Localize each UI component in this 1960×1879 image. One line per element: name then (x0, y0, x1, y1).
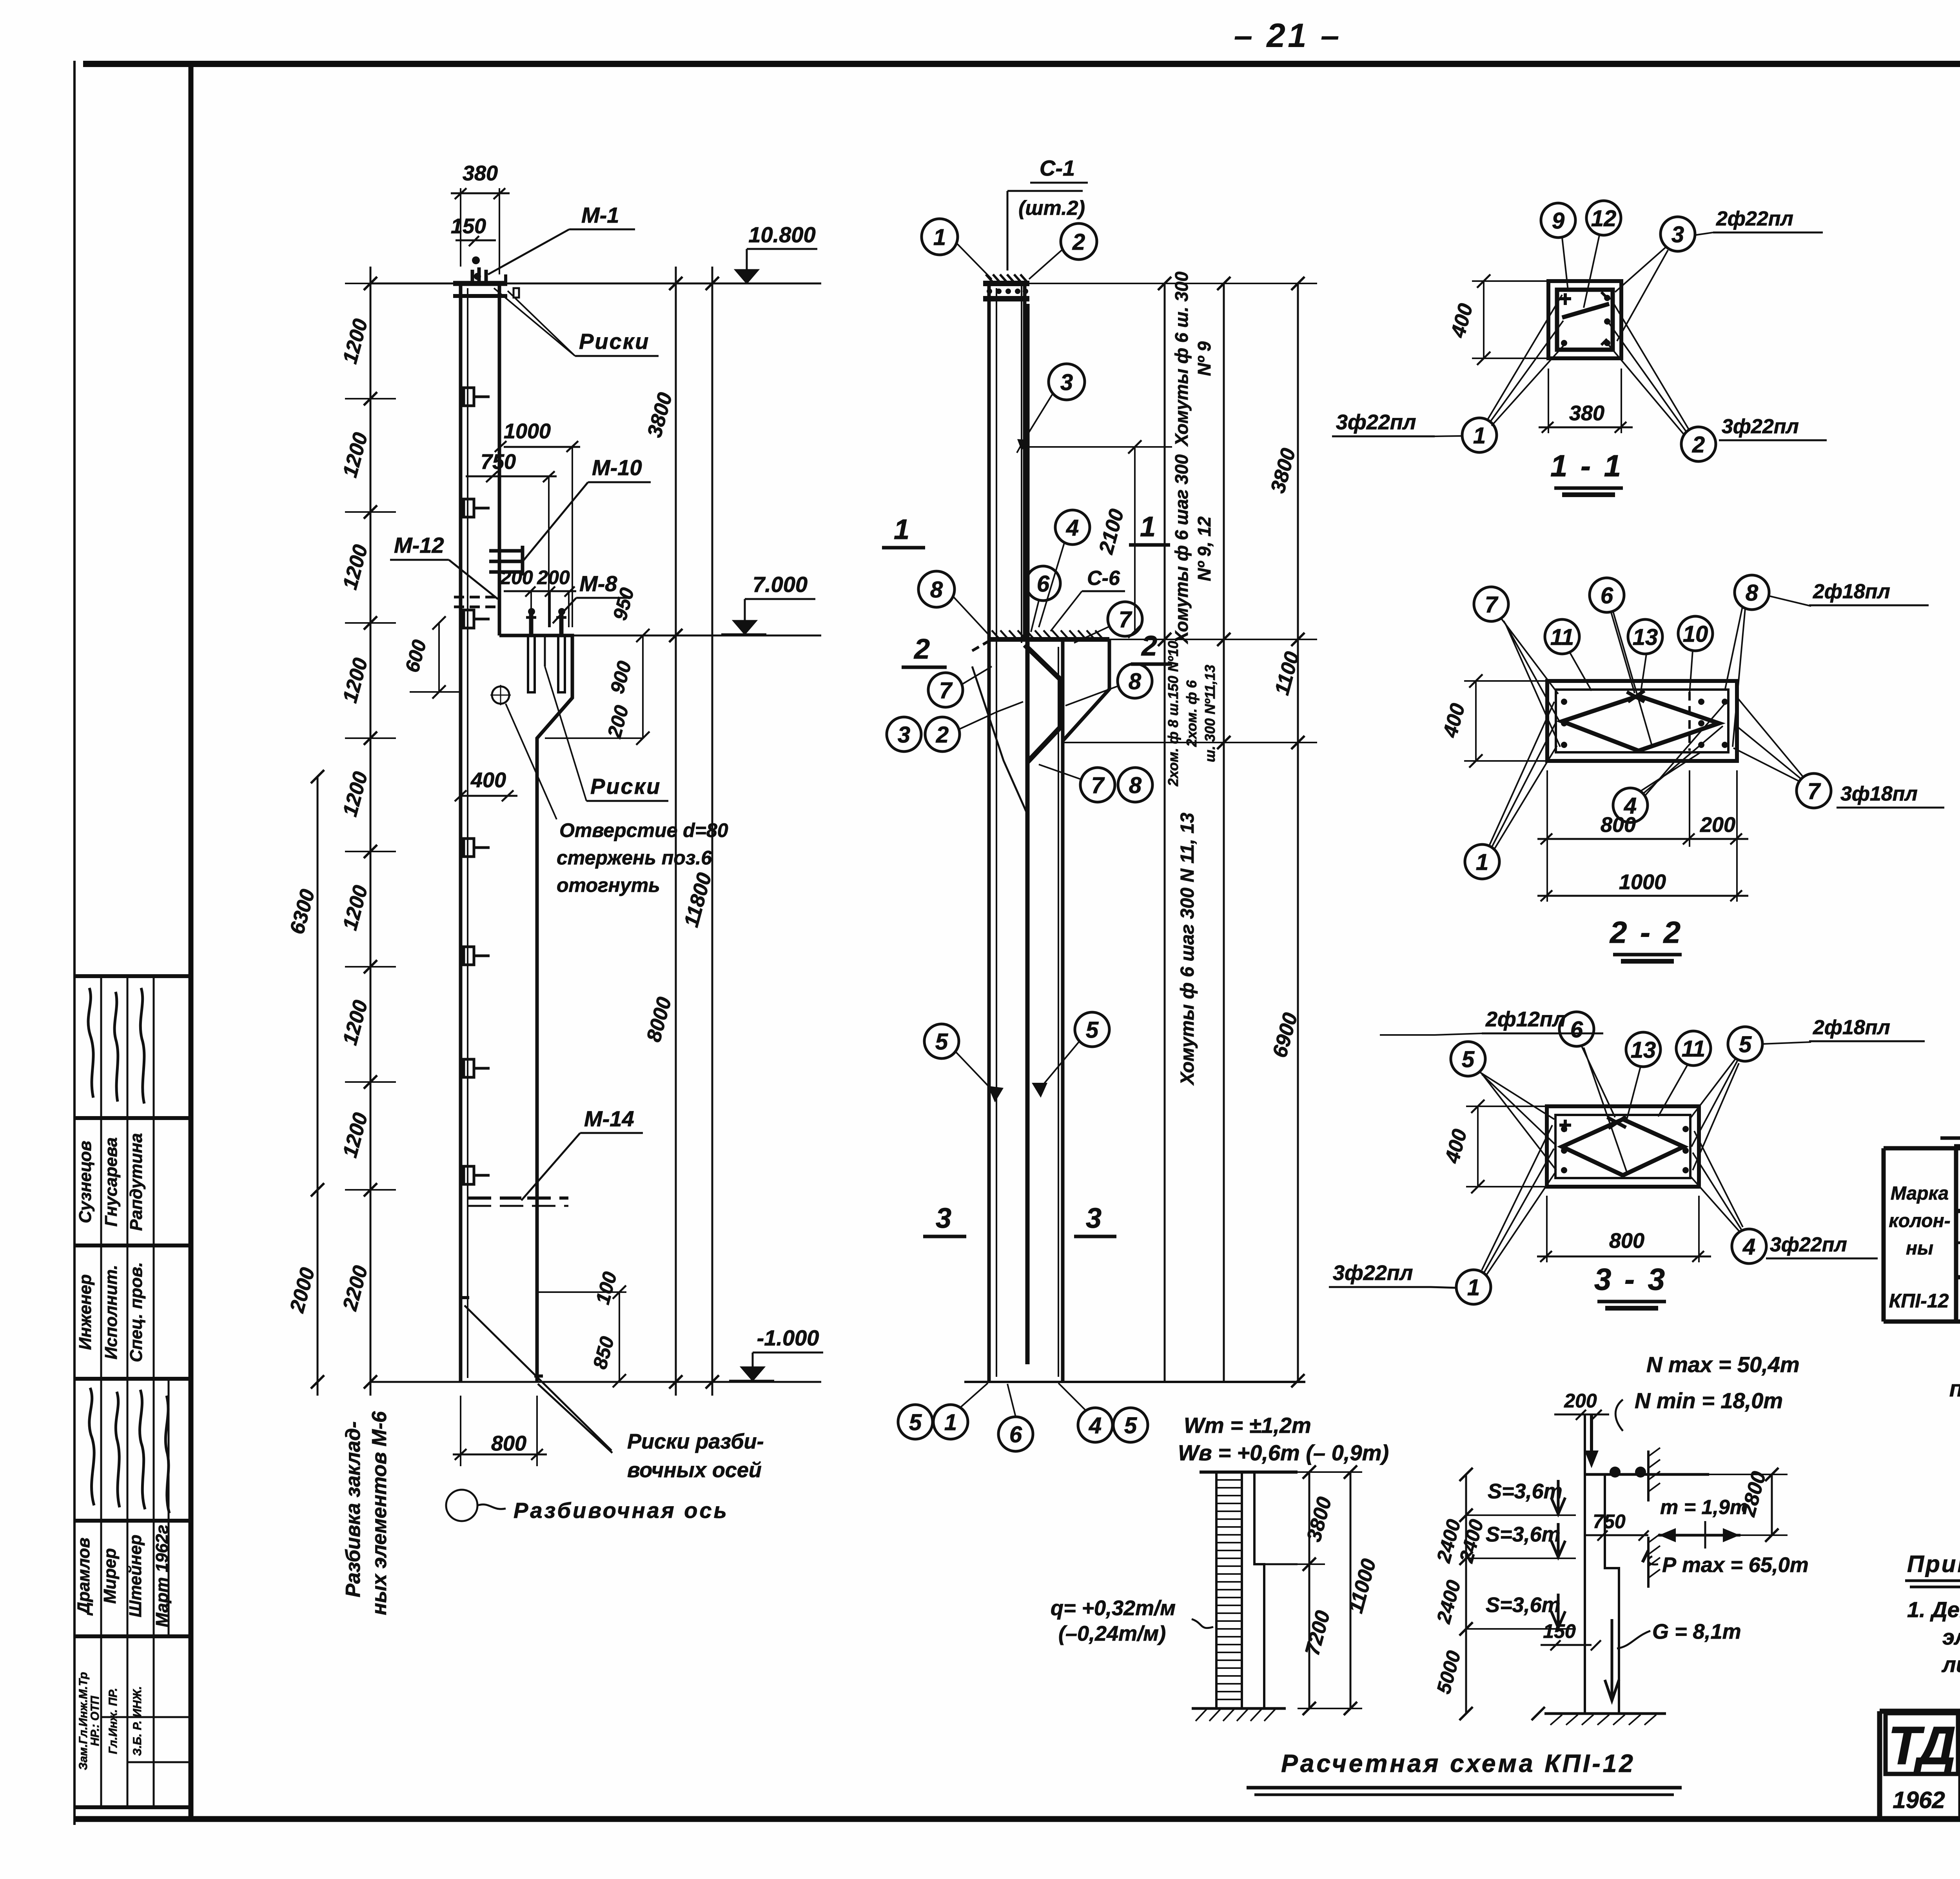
node riski rects on shaft (464, 388, 490, 1184)
svg-text:380: 380 (1569, 401, 1604, 425)
svg-text:3: 3 (898, 722, 910, 748)
node s11 circled 2 (1608, 298, 1716, 461)
svg-text:Р max = 65,0т: Р max = 65,0т (1662, 1553, 1809, 1577)
CENTER COLUMN (882, 156, 1317, 1451)
node riski label top (494, 288, 659, 356)
svg-text:8: 8 (1129, 773, 1142, 798)
node section 2-2 dims 800 200 1000 (1537, 770, 1748, 902)
node s22 circled 8 (1725, 575, 1769, 747)
node wind labels (1178, 1413, 1389, 1465)
node section mark 3 right (1074, 1203, 1116, 1236)
node notes (1905, 1551, 1960, 1677)
node circled 6 (1026, 566, 1060, 632)
node scheme1 dims (1298, 1465, 1381, 1715)
svg-text:7: 7 (939, 678, 953, 703)
svg-text:1. Детали колонн с закладными: 1. Детали колонн с закладными (1907, 1597, 1960, 1622)
svg-text:12: 12 (1591, 206, 1617, 231)
svg-text:1: 1 (944, 1410, 957, 1435)
node dim 150 (451, 214, 496, 246)
node s11 circled 1 (1462, 295, 1564, 452)
svg-text:Риски: Риски (579, 329, 650, 354)
title block frame (1880, 1711, 1960, 1819)
node section 1-1 dim 400 (1446, 274, 1550, 365)
node dim 750 scheme2 (1585, 1510, 1649, 1541)
svg-text:13: 13 (1631, 1037, 1656, 1063)
svg-text:2: 2 (1072, 229, 1085, 255)
STAMPSTRIP (74, 976, 191, 1807)
svg-text:10.800: 10.800 (748, 222, 815, 247)
svg-text:3: 3 (1060, 370, 1073, 395)
node s33 circled 1 (1456, 1125, 1555, 1304)
svg-text:2ф18пл: 2ф18пл (1813, 1016, 1890, 1039)
svg-text:1: 1 (1473, 423, 1486, 448)
svg-text:9: 9 (1552, 208, 1564, 234)
svg-text:6: 6 (1037, 571, 1050, 597)
node rotated zakladka note (342, 1411, 391, 1615)
node dim 200 200 (500, 566, 576, 627)
node dim 6300 line (285, 770, 324, 1396)
svg-text:Штейнер: Штейнер (126, 1535, 145, 1618)
node s33 circled 5 right (1690, 1027, 1762, 1170)
node section 3-3 dim 800 (1537, 1196, 1711, 1262)
svg-text:показатели на одну колонну: показатели на одну колонну (1949, 1376, 1960, 1402)
node TE title (1949, 1346, 1960, 1412)
svg-text:5: 5 (935, 1029, 948, 1055)
node section 3-3 dim 400 (1441, 1100, 1548, 1193)
svg-text:М-14: М-14 (584, 1106, 634, 1131)
svg-text:т = 1,9т: т = 1,9т (1660, 1496, 1748, 1519)
svg-text:ш. 300 Nº11,13: ш. 300 Nº11,13 (1202, 665, 1218, 762)
svg-text:10: 10 (1683, 621, 1708, 647)
svg-text:2: 2 (936, 722, 949, 748)
svg-text:2 - 2: 2 - 2 (1609, 915, 1683, 949)
node section 2-2 box (1547, 681, 1737, 761)
svg-text:2ф18пл: 2ф18пл (1813, 580, 1890, 603)
console outline (499, 635, 572, 1382)
svg-text:3: 3 (936, 1203, 951, 1234)
svg-text:N min = 18,0т: N min = 18,0т (1635, 1388, 1783, 1413)
svg-text:2: 2 (1692, 432, 1705, 457)
node circled 6 bottom (998, 1384, 1033, 1451)
node dim 850 100 (536, 1269, 626, 1387)
wire top border (83, 61, 1960, 67)
svg-text:13: 13 (1633, 625, 1658, 650)
svg-text:Март 1962г: Март 1962г (152, 1525, 172, 1627)
svg-text:Примечания:: Примечания: (1907, 1551, 1960, 1577)
node C-6 label (1051, 567, 1125, 631)
node M-12 label dashed (390, 533, 501, 607)
node s33 circled 13 (1626, 1032, 1661, 1119)
svg-text:Хомуты ф 6 шаг 300 N 11, 13: Хомуты ф 6 шаг 300 N 11, 13 (1177, 813, 1198, 1086)
node s22 circled 7 right (1733, 696, 1831, 808)
node riski axis label (627, 1430, 764, 1482)
node section mark 1 right (1129, 511, 1170, 545)
svg-text:S=3,6т: S=3,6т (1486, 1593, 1561, 1617)
svg-text:Драмлов: Драмлов (74, 1538, 93, 1616)
node dim 1000 (495, 419, 580, 627)
svg-text:Wт = ±1,2т: Wт = ±1,2т (1184, 1413, 1311, 1438)
svg-text:элементами помещены на: элементами помещены на (1942, 1625, 1960, 1649)
svg-text:ных элементов М-6: ных элементов М-6 (368, 1411, 391, 1615)
node s11 label 3f22 left (1332, 410, 1463, 436)
column outline right upper (498, 283, 501, 635)
node razbivochnaya axis (446, 1490, 729, 1523)
svg-text:Гнусарева: Гнусарева (102, 1137, 121, 1227)
svg-text:7.000: 7.000 (753, 572, 808, 597)
node base line center (964, 1381, 1305, 1383)
svg-text:стержень поз.6: стержень поз.6 (557, 847, 712, 869)
node s11 label 3f22 right (1719, 415, 1827, 440)
svg-text:800: 800 (491, 1432, 526, 1455)
svg-text:3: 3 (1086, 1203, 1102, 1234)
svg-text:Марка: Марка (1891, 1183, 1949, 1204)
node stirrup text rotated C (1165, 641, 1218, 787)
node s11 circled 9 (1541, 203, 1575, 290)
node base leaders (453, 1298, 612, 1466)
svg-text:Рапдутина: Рапдутина (127, 1133, 146, 1231)
node s33 label 3f22 right (1766, 1233, 1878, 1258)
node s22 circled 13 (1628, 619, 1662, 694)
node dim 600 (401, 616, 461, 699)
svg-text:4: 4 (1066, 515, 1079, 541)
node M-10 label and anchor (489, 455, 651, 576)
svg-text:Разбивочная ось: Разбивочная ось (514, 1498, 729, 1523)
svg-text:400: 400 (470, 768, 506, 792)
svg-text:7: 7 (1119, 607, 1132, 632)
svg-text:КПI-12: КПI-12 (1889, 1290, 1949, 1312)
svg-text:Расчетная схема КПI-12: Расчетная схема КПI-12 (1281, 1749, 1635, 1777)
node M-14 label (468, 1106, 643, 1206)
svg-text:750: 750 (1593, 1510, 1626, 1532)
node stirrup dim lines right (1029, 277, 1317, 1387)
node Nmax Nmin labels (1615, 1352, 1799, 1431)
node hole note text (506, 704, 728, 896)
node circled 4 (1039, 510, 1090, 627)
node circled 3 (1017, 364, 1085, 453)
svg-text:1: 1 (933, 225, 946, 250)
svg-text:отогнуть: отогнуть (557, 874, 660, 896)
node G force (1605, 1619, 1741, 1701)
node bent bar (1025, 645, 1060, 762)
node elevation mark 10.800 (723, 222, 817, 283)
node s33 label 2f18 (1762, 1016, 1925, 1044)
SECTIONS (1329, 201, 1944, 1308)
svg-text:Гл.Инж. ПР.: Гл.Инж. ПР. (107, 1688, 120, 1754)
node TD logo (1886, 1713, 1958, 1813)
node circled 7 8 pair low (1039, 764, 1152, 802)
svg-text:6: 6 (1601, 583, 1613, 608)
svg-text:200: 200 (500, 566, 533, 588)
node T force (1658, 1496, 1748, 1549)
node circled 3 2 pair (887, 702, 1023, 752)
svg-text:11: 11 (1682, 1036, 1705, 1062)
node s11 label 2f22 (1694, 207, 1823, 235)
node circled 5 mid left (924, 1024, 1004, 1102)
svg-text:М-8: М-8 (579, 571, 617, 596)
node s33 circled 6 (1559, 1012, 1627, 1172)
svg-text:1: 1 (1140, 511, 1156, 543)
svg-text:800: 800 (1609, 1229, 1644, 1253)
node scheme1 title (1247, 1749, 1682, 1795)
node level line base (370, 1381, 821, 1383)
node section mark 2 left (902, 634, 947, 667)
node s22 label 3f18 (1837, 782, 1944, 808)
svg-text:(шт.2): (шт.2) (1018, 197, 1085, 220)
node s22 circled 4 (1613, 704, 1725, 822)
svg-text:3ф18пл: 3ф18пл (1840, 782, 1918, 805)
svg-text:Инженер: Инженер (76, 1274, 95, 1350)
svg-text:колон-: колон- (1889, 1211, 1950, 1231)
SMALLTABLES (1905, 1332, 1960, 1710)
node column top cap (453, 256, 519, 298)
svg-text:3ф22пл: 3ф22пл (1333, 1261, 1413, 1285)
svg-text:5: 5 (1124, 1413, 1137, 1438)
node section 1-1 dim 380 (1539, 369, 1633, 433)
node s33 label 3f22 left (1329, 1261, 1457, 1288)
node left dim chain scheme2 (1432, 1468, 1488, 1720)
svg-text:Wв = +0,6т (– 0,9т): Wв = +0,6т (– 0,9т) (1178, 1440, 1389, 1465)
node s33 circled 4 (1690, 1131, 1766, 1264)
svg-text:листе 39: листе 39 (1941, 1652, 1960, 1677)
node dim 750 (466, 450, 557, 627)
svg-text:– 21 –: – 21 – (1234, 17, 1341, 54)
node C-1 mesh label (1007, 156, 1088, 271)
svg-text:1000: 1000 (1619, 870, 1666, 894)
node q load label (1051, 1596, 1213, 1645)
node s22 circled 10 (1678, 616, 1713, 694)
svg-text:3ф22пл: 3ф22пл (1770, 1233, 1847, 1256)
node dim 2100 rotated (1027, 440, 1172, 638)
svg-text:М-12: М-12 (394, 533, 444, 557)
LEFT ELEVATION (285, 162, 823, 1615)
svg-text:1962: 1962 (1893, 1787, 1945, 1813)
node stamp names printed (76, 1133, 146, 1231)
svg-text:1 - 1: 1 - 1 (1550, 448, 1623, 483)
node dim 380 top (451, 162, 510, 274)
node circled 7 console (1074, 602, 1142, 643)
svg-text:Сузнецов: Сузнецов (76, 1141, 95, 1223)
node page number -21- (1234, 17, 1341, 54)
svg-text:ТД: ТД (1888, 1716, 1955, 1776)
svg-text:2хом. ф 8 ш.150 Nº10: 2хом. ф 8 ш.150 Nº10 (1165, 641, 1181, 787)
svg-text:Риски: Риски (590, 774, 661, 799)
node s22 label 2f18 (1769, 580, 1929, 606)
node ground hatch right (1532, 1707, 1666, 1725)
svg-text:Исполнит.: Исполнит. (102, 1265, 121, 1359)
node column top cap center (983, 274, 1029, 299)
column outline left (459, 283, 463, 1382)
node s22 circled 6 (1590, 578, 1652, 747)
node stamp signatures block1 (88, 988, 144, 1104)
node circled 8 left (918, 571, 989, 635)
node force column (1584, 1414, 1709, 1714)
svg-text:Nº 9: Nº 9 (1194, 341, 1214, 376)
node circled 4 5 bottom (1058, 1383, 1148, 1442)
svg-text:ны: ны (1906, 1238, 1933, 1259)
svg-text:S=3,6т: S=3,6т (1486, 1523, 1561, 1546)
node section mark 3 left (923, 1203, 966, 1236)
node s33 circled 5 left (1451, 1042, 1556, 1170)
svg-text:-1.000: -1.000 (757, 1325, 819, 1350)
node right dim lines 3800 8000 11800 (642, 267, 719, 1396)
node s22 circled 1 (1465, 702, 1557, 879)
svg-text:G = 8,1т: G = 8,1т (1652, 1620, 1741, 1643)
svg-text:8: 8 (930, 577, 943, 603)
svg-text:Зам.Гл.Инж.М.Тр: Зам.Гл.Инж.М.Тр (77, 1672, 90, 1770)
svg-text:Хомуты ф 6 шаг 300: Хомуты ф 6 шаг 300 (1171, 454, 1192, 644)
svg-text:Спец. пров.: Спец. пров. (127, 1262, 146, 1362)
svg-text:М-10: М-10 (592, 455, 642, 480)
node load strip (1192, 1472, 1298, 1721)
svg-text:200: 200 (537, 566, 570, 588)
node circled 2 top (1029, 223, 1097, 279)
node circled 5 mid right (1032, 1012, 1109, 1098)
svg-text:q= +0,32т/м: q= +0,32т/м (1051, 1596, 1176, 1620)
svg-text:5: 5 (909, 1410, 922, 1435)
svg-text:2: 2 (1141, 630, 1157, 662)
vyborka table grid (1884, 1148, 1960, 1322)
node ground hatch left (1192, 1707, 1286, 1710)
wire left thin border (73, 61, 76, 1825)
node circled 1 top (922, 219, 992, 279)
svg-text:5: 5 (1739, 1032, 1752, 1057)
node section 1-1 label (1550, 448, 1623, 495)
svg-text:Мирер: Мирер (100, 1548, 120, 1604)
svg-text:750: 750 (481, 450, 516, 474)
svg-text:8: 8 (1746, 580, 1759, 606)
node stamp dept codes (77, 1672, 144, 1770)
svg-text:(–0,24т/м): (–0,24т/м) (1058, 1622, 1166, 1645)
node stamp signatures block2 (89, 1388, 169, 1513)
svg-text:Разбивка заклад-: Разбивка заклад- (342, 1421, 365, 1597)
node dim 950 900 200 rotated (545, 585, 650, 745)
SCHEMES (1051, 1352, 1809, 1795)
node left dim chain (338, 267, 396, 1396)
svg-text:вочных осей: вочных осей (627, 1458, 762, 1482)
node stamp roles (76, 1262, 146, 1362)
svg-text:5: 5 (1462, 1047, 1475, 1072)
vyborka header texts (1889, 1154, 1960, 1276)
svg-text:3 - 3: 3 - 3 (1594, 1262, 1667, 1296)
node M-8 bolts (526, 608, 566, 692)
node dim 400 (455, 768, 517, 801)
node circled 8 right lower (1065, 664, 1152, 706)
svg-text:М-1: М-1 (581, 203, 619, 227)
svg-text:150: 150 (451, 214, 486, 238)
svg-text:Риски разби-: Риски разби- (627, 1430, 764, 1453)
svg-text:6: 6 (1570, 1017, 1583, 1042)
node section 3-3 label (1594, 1262, 1667, 1308)
svg-text:7: 7 (1091, 773, 1105, 798)
svg-text:1: 1 (894, 514, 909, 545)
svg-text:200: 200 (1564, 1390, 1597, 1412)
node s11 circled 12 (1584, 201, 1621, 308)
svg-text:С-6: С-6 (1087, 567, 1120, 590)
svg-text:380: 380 (463, 162, 498, 185)
svg-text:2ф12пл: 2ф12пл (1485, 1008, 1566, 1031)
node s11 circled 3 (1615, 217, 1695, 341)
svg-text:N max = 50,4т: N max = 50,4т (1646, 1352, 1800, 1377)
node Pmax label (1642, 1550, 1809, 1577)
node console center (972, 630, 1109, 813)
wire bottom border (74, 1816, 1960, 1822)
stamp grid (74, 976, 191, 1807)
svg-text:1: 1 (1476, 850, 1488, 875)
svg-text:11: 11 (1550, 625, 1574, 650)
node level line 10.800 (370, 283, 821, 285)
svg-text:1: 1 (1467, 1275, 1480, 1300)
svg-text:НР.: ОТП: НР.: ОТП (89, 1696, 102, 1746)
svg-text:3ф22пл: 3ф22пл (1722, 415, 1799, 438)
TITLEBLOCK (1880, 1711, 1960, 1819)
node section 2-2 dim 400 (1439, 674, 1549, 768)
svg-text:З.Б. Р. ИНЖ.: З.Б. Р. ИНЖ. (131, 1686, 144, 1756)
wire stamp divider (189, 67, 194, 1819)
node dim 200 top (1554, 1390, 1609, 1420)
svg-text:4: 4 (1089, 1413, 1102, 1438)
svg-text:2ф22пл: 2ф22пл (1716, 207, 1793, 230)
svg-text:2: 2 (913, 634, 930, 665)
svg-text:200: 200 (1700, 813, 1735, 837)
node dim 150 (1541, 1620, 1601, 1650)
column inner rebar line (467, 288, 468, 1378)
node s22 circled 11 (1545, 619, 1592, 691)
svg-text:3: 3 (1671, 222, 1684, 247)
svg-text:С-1: С-1 (1040, 156, 1075, 180)
node elevation mark -1.000 (729, 1325, 823, 1381)
node elevation mark 7.000 (572, 572, 821, 635)
svg-text:4: 4 (1624, 793, 1637, 819)
node s33 label 2f12 (1380, 1008, 1603, 1035)
node section mark 1 left (882, 514, 925, 548)
node vyborka title (1940, 1106, 1960, 1146)
svg-text:Хомуты ф 6 ш. 300: Хомуты ф 6 ш. 300 (1171, 271, 1192, 447)
svg-text:5: 5 (1086, 1017, 1099, 1043)
node section 1-1 box (1548, 281, 1621, 358)
svg-text:2хом. ф 6: 2хом. ф 6 (1183, 680, 1200, 747)
node circled 7 left lower (928, 666, 992, 707)
node M-1 label (488, 203, 635, 274)
svg-text:4: 4 (1742, 1234, 1755, 1260)
node M-8 label (553, 571, 627, 623)
svg-text:1000: 1000 (504, 419, 551, 443)
svg-text:150: 150 (1543, 1620, 1576, 1642)
node stamp names2 (74, 1525, 172, 1627)
node section 2-2 label (1609, 915, 1683, 961)
node wall support hatch (1647, 1451, 1650, 1501)
svg-text:Nº 9, 12: Nº 9, 12 (1194, 516, 1214, 581)
svg-text:Отверстие d=80: Отверстие d=80 (559, 819, 728, 841)
node riski label 2 (545, 666, 668, 801)
svg-text:7: 7 (1808, 779, 1821, 804)
svg-text:6: 6 (1009, 1422, 1022, 1447)
svg-text:8: 8 (1129, 669, 1142, 694)
column center outline (989, 283, 1063, 1381)
node s22 circled 7 (1474, 587, 1560, 747)
VYBORKA (1884, 1106, 1960, 1322)
vyborka data row (1889, 1287, 1960, 1312)
node s33 circled 11 (1658, 1031, 1711, 1117)
node dim 2800 (1709, 1468, 1788, 1542)
node hole d80 (490, 685, 511, 705)
node section mark 2 right (1131, 630, 1172, 664)
svg-text:7: 7 (1485, 592, 1499, 617)
node N arrow (1590, 1414, 1593, 1462)
node circled 5 1 bottom (898, 1383, 988, 1439)
node S forces (1466, 1480, 1576, 1629)
node section 3-3 box (1547, 1106, 1699, 1187)
svg-text:3ф22пл: 3ф22пл (1336, 410, 1416, 434)
